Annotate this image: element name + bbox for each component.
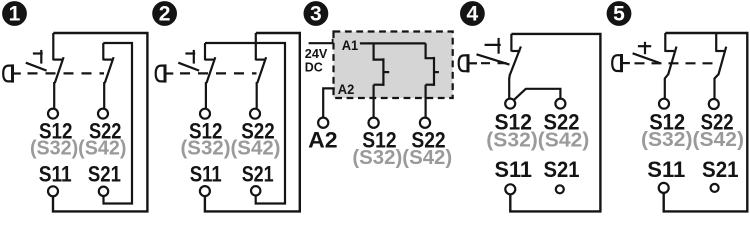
OSSD transistor output 1: [374, 43, 390, 86]
terminal A2: [318, 118, 328, 128]
svg-text:(S32)(S42): (S32)(S42): [30, 136, 127, 159]
section 4 badge: [460, 1, 485, 26]
wire: OSSD1 to S12: [373, 85, 375, 118]
svg-text:2: 2: [159, 3, 171, 26]
svg-text:S11: S11: [647, 157, 685, 182]
svg-text:S11: S11: [39, 161, 72, 186]
mechanical linkage (dashed): [180, 72, 257, 74]
svg-text:5: 5: [613, 3, 625, 26]
e-stop actuator B4 (mushroom head): [459, 54, 477, 72]
svg-text:S21: S21: [702, 157, 739, 182]
e-stop actuator B5 (mushroom head): [612, 54, 630, 72]
sensor output module (gray box, dashed): [334, 32, 453, 99]
svg-text:A1: A1: [342, 38, 359, 54]
svg-text:S21: S21: [88, 161, 121, 186]
wire: A1 bus: [360, 42, 426, 44]
wire: S11 loop to contact 1: [53, 33, 147, 211]
terminal S22: [250, 109, 260, 119]
wire: A2 lead: [323, 88, 335, 117]
NC contact (S11-S12): [509, 34, 521, 98]
latching detent symbol: [26, 50, 47, 71]
NC contact 2 (S21-S22): [256, 33, 266, 108]
terminal S11: [48, 186, 58, 196]
svg-text:1: 1: [9, 3, 21, 26]
e-stop actuator B1 (mushroom head): [3, 64, 21, 82]
wire: S12 to S22 bridge: [514, 89, 561, 100]
terminal S22: [98, 109, 108, 119]
svg-text:(S32)(S42): (S32)(S42): [352, 146, 452, 169]
label 24V DC supply: [305, 46, 328, 75]
mechanical linkage (dashed): [635, 62, 718, 64]
terminal S21: [99, 187, 108, 196]
svg-text:(S32)(S42): (S32)(S42): [181, 136, 281, 159]
NC contact 2 (S21-S22): [103, 43, 113, 108]
terminal S22: [420, 118, 430, 128]
svg-text:S21: S21: [544, 157, 580, 182]
section 1 badge: [2, 1, 27, 26]
svg-text:A2: A2: [308, 127, 338, 152]
wire: OSSD2 to S22: [425, 85, 427, 118]
svg-text:S11: S11: [190, 161, 222, 186]
svg-text:S11: S11: [494, 157, 532, 182]
terminal S22: [555, 99, 565, 109]
terminal S12: [369, 118, 379, 128]
wire: S21 loop to contact 1 (crossed channel): [205, 43, 285, 204]
NC contact 2 (S21-S22): [715, 33, 727, 99]
svg-text:A2: A2: [338, 82, 355, 98]
svg-text:(S32)(S42): (S32)(S42): [641, 128, 744, 151]
OSSD transistor output 2: [426, 43, 439, 86]
wire: S11 monitoring loop: [510, 34, 600, 212]
latching detent symbol: [477, 38, 510, 65]
NC contact 1 (S11-S12): [205, 43, 215, 108]
NC contact 1 (S11-S12): [53, 33, 63, 108]
svg-text:DC: DC: [305, 60, 323, 75]
mechanical linkage (dashed): [28, 72, 105, 74]
wire: S11 loop over both contacts: [664, 33, 748, 211]
terminal S12: [48, 109, 58, 119]
svg-text:4: 4: [467, 3, 479, 26]
svg-text:3: 3: [310, 3, 322, 26]
wire: +24V to A1: [309, 39, 333, 43]
section 5 badge: [607, 1, 632, 26]
terminal S11: [659, 183, 669, 193]
terminal S22: [709, 99, 719, 109]
mechanical linkage (dashed): [481, 62, 509, 64]
e-stop actuator B2 (mushroom head): [156, 64, 174, 82]
terminal S21: [556, 185, 564, 193]
wire: S11 loop to contact 2 (crossed channel): [205, 33, 300, 211]
svg-text:(S32)(S42): (S32)(S42): [486, 128, 589, 151]
section 2 badge: [152, 1, 177, 26]
terminal S21: [251, 186, 260, 195]
wire: S21 loop to contact 2: [103, 43, 132, 204]
terminal S12: [200, 109, 210, 119]
terminal S12: [659, 99, 669, 109]
latching detent symbol: [633, 42, 661, 63]
NC contact 1 (S11-S12): [665, 33, 677, 99]
section 3 badge: [304, 1, 329, 26]
latching detent symbol: [178, 50, 199, 71]
terminal S21: [711, 184, 719, 192]
terminal S11: [505, 184, 515, 194]
svg-text:S21: S21: [242, 161, 274, 186]
terminal S11: [200, 186, 210, 196]
terminal S12: [505, 99, 515, 109]
